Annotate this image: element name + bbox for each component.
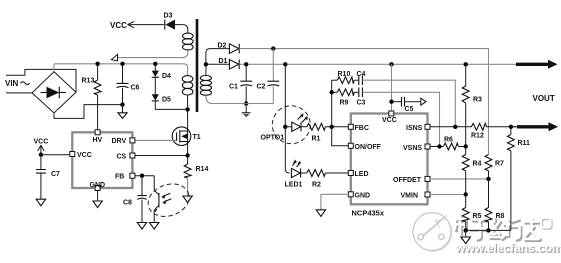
svg-text:CS: CS bbox=[117, 154, 127, 161]
pin GND (U1) bbox=[90, 182, 106, 191]
wire bottom ground bus bbox=[466, 229, 511, 231]
resistor R5 bbox=[462, 195, 481, 231]
resistor R13 bbox=[82, 64, 102, 130]
pin VMIN bbox=[401, 192, 431, 200]
svg-text:R4: R4 bbox=[473, 161, 482, 168]
svg-text:D1: D1 bbox=[219, 58, 228, 65]
pin FBC bbox=[348, 124, 369, 132]
node VCC label (left) bbox=[34, 139, 49, 155]
off-page arrow to VCC (aux winding return) bbox=[111, 50, 187, 61]
svg-text:VOUT: VOUT bbox=[533, 94, 555, 103]
svg-text:D2: D2 bbox=[218, 43, 227, 50]
svg-text:D3: D3 bbox=[164, 13, 173, 20]
svg-text:C8: C8 bbox=[123, 200, 132, 207]
transformer T aux winding bbox=[183, 25, 194, 50]
wire VIN line A (top input) bbox=[6, 69, 76, 92]
svg-text:C1: C1 bbox=[229, 84, 238, 91]
svg-text:OPTO1: OPTO1 bbox=[261, 135, 285, 142]
svg-text:ISNS: ISNS bbox=[406, 125, 423, 132]
svg-text:R1: R1 bbox=[312, 136, 321, 143]
resistor R8 bbox=[485, 179, 504, 231]
watermark chinese text 电子发烧友 bbox=[455, 216, 541, 241]
svg-text:C6: C6 bbox=[131, 85, 140, 92]
svg-text:VSNS: VSNS bbox=[403, 145, 422, 152]
node junction dot VCC/C7 bbox=[39, 153, 43, 157]
node junction dot VMIN/R4/R5 bbox=[464, 192, 468, 196]
wire VCC arrow to D3 bbox=[128, 22, 165, 28]
node junction dot C4 drop on ISNS bbox=[453, 125, 457, 129]
watermark logo disc bbox=[413, 213, 453, 253]
wire VCC to U1 bbox=[41, 154, 70, 156]
svg-text:R5: R5 bbox=[473, 213, 482, 220]
opto-transistor (OPTO1 receiver) bbox=[144, 176, 194, 223]
pin ISNS bbox=[406, 124, 430, 132]
svg-text:R7: R7 bbox=[495, 161, 504, 168]
ground below R5 bbox=[461, 230, 470, 243]
wire DC+ rail from bridge top to transformer primary bbox=[54, 64, 188, 76]
resistor R7 bbox=[485, 155, 504, 179]
node junction dot D4 top bbox=[153, 62, 157, 66]
resistor R3 bbox=[462, 64, 482, 146]
wire VOUT arrow bottom bbox=[511, 122, 558, 131]
wire VOUT+ rail from D1 to arrow bbox=[239, 63, 516, 65]
wire secondary top to D2 row bbox=[206, 49, 229, 65]
node junction dot R8 bottom bbox=[486, 228, 490, 232]
svg-text:R12: R12 bbox=[471, 133, 484, 140]
ground below C8 bbox=[137, 223, 146, 230]
pin VSNS bbox=[403, 144, 430, 152]
pin ON/OFF bbox=[348, 143, 381, 151]
transformer T core bbox=[196, 19, 199, 112]
capacitor C5 bbox=[392, 97, 427, 113]
svg-text:www.elecfans.com: www.elecfans.com bbox=[455, 241, 561, 255]
IC U1 controller box bbox=[72, 132, 132, 188]
diode D4 bbox=[152, 64, 171, 80]
svg-text:DRV: DRV bbox=[112, 138, 127, 145]
svg-text:VCC: VCC bbox=[110, 21, 127, 30]
svg-text:R3: R3 bbox=[473, 97, 482, 104]
svg-text:D4: D4 bbox=[162, 73, 171, 80]
node junction dot R3 top bbox=[464, 62, 468, 66]
ground below C1 bbox=[242, 104, 251, 118]
node junction dot opto column top bbox=[283, 62, 287, 66]
node junction dot C3 drop on VSNS bbox=[437, 144, 441, 148]
transformer T primary winding bbox=[182, 76, 193, 110]
node junction dot primary bottom / T1 drain bbox=[185, 107, 189, 111]
LED LED1 bbox=[285, 160, 303, 189]
svg-text:ON/OFF: ON/OFF bbox=[355, 144, 382, 151]
svg-text:T1: T1 bbox=[193, 134, 201, 141]
node junction dot R9 left bbox=[330, 90, 334, 94]
wire VIN line B (bottom input) bbox=[6, 92, 32, 94]
wire VSNS row bbox=[430, 146, 443, 148]
node junction dot C1 top bbox=[244, 62, 248, 66]
wire opto/LED column bbox=[285, 64, 289, 173]
diode D5 bbox=[152, 94, 171, 103]
ground below C6 bbox=[118, 105, 127, 119]
node junction dot C6 top bbox=[120, 62, 124, 66]
node junction dot VCC column top bbox=[389, 62, 393, 66]
svg-text:NCP435x: NCP435x bbox=[352, 209, 385, 218]
node junction dot C1 bottom bbox=[244, 101, 248, 105]
svg-text:R6: R6 bbox=[444, 137, 453, 144]
svg-text:D5: D5 bbox=[162, 97, 171, 104]
wire D5 to primary bottom bbox=[155, 101, 187, 110]
node junction dot C2 top bbox=[271, 46, 275, 50]
svg-text:R8: R8 bbox=[496, 213, 505, 220]
capacitor C8 bbox=[123, 176, 147, 223]
svg-text:GND: GND bbox=[355, 193, 371, 200]
resistor R2 bbox=[301, 170, 349, 189]
wire D4 to D5 bbox=[154, 77, 156, 94]
svg-text:OFFDET: OFFDET bbox=[393, 177, 422, 184]
IC U2 NCP435x box bbox=[351, 114, 428, 205]
svg-text:R10: R10 bbox=[338, 71, 351, 78]
resistor R1 bbox=[301, 123, 348, 142]
capacitor C2 bbox=[257, 49, 280, 104]
svg-text:C3: C3 bbox=[357, 99, 366, 106]
capacitor C6 bbox=[117, 64, 140, 105]
watermark url text bbox=[455, 241, 561, 256]
svg-text:R14: R14 bbox=[196, 166, 209, 173]
bridge rectifier BR1 diamond bbox=[32, 72, 76, 113]
wire FB row bbox=[135, 175, 154, 177]
resistor R10 bbox=[332, 71, 359, 84]
opto LED (OPTO1) bbox=[261, 106, 311, 144]
wire R10/R9 left column bbox=[331, 80, 333, 127]
transformer T secondary winding bbox=[200, 64, 212, 103]
diode D1 bbox=[219, 58, 240, 69]
diode D2 bbox=[218, 43, 240, 54]
wire OFFDET row bbox=[430, 178, 489, 180]
node junction dot opto LED anode bbox=[283, 125, 287, 129]
pin CS bbox=[117, 153, 135, 161]
node junction dot R11 top bbox=[509, 125, 513, 129]
wire secondary top to D1 bbox=[206, 63, 229, 65]
capacitor C3 bbox=[357, 88, 440, 145]
node junction dot C6 bottom bbox=[120, 102, 124, 106]
node junction dot R5 bottom bbox=[464, 228, 468, 232]
svg-text:R13: R13 bbox=[82, 78, 95, 85]
pin LED bbox=[348, 171, 368, 179]
svg-text:FBC: FBC bbox=[355, 125, 369, 132]
pin DRV bbox=[112, 138, 135, 145]
wire VCC column bbox=[391, 64, 393, 111]
capacitor C1 bbox=[229, 64, 252, 103]
wire ISNS row bbox=[430, 126, 516, 128]
wire VMIN row bbox=[430, 194, 466, 196]
svg-text:C2: C2 bbox=[257, 84, 266, 91]
node junction dot OFFDET/R7/R8 bbox=[486, 177, 490, 181]
svg-text:C5: C5 bbox=[405, 106, 414, 113]
resistor R12 bbox=[471, 123, 486, 139]
ground below opto emitter bbox=[150, 223, 159, 230]
wire CS row bbox=[135, 155, 188, 157]
node junction dot C5 tap bbox=[389, 100, 393, 104]
wire secondary ground rail bbox=[212, 103, 273, 105]
svg-text:C4: C4 bbox=[357, 71, 366, 78]
svg-text:HV: HV bbox=[93, 137, 103, 144]
capacitor C4 bbox=[357, 71, 456, 125]
wire bridge bottom to ground rail bbox=[54, 105, 123, 119]
resistor R4 bbox=[462, 147, 481, 195]
node junction dot FB/C8 bbox=[140, 174, 144, 178]
svg-text:LED: LED bbox=[355, 171, 369, 178]
svg-text:GND: GND bbox=[90, 182, 106, 189]
svg-text:R9: R9 bbox=[340, 99, 349, 106]
node junction dot secondary top bbox=[204, 62, 208, 66]
svg-text:FB: FB bbox=[115, 174, 124, 181]
svg-text:R2: R2 bbox=[312, 182, 321, 189]
node junction dot R6/R3/R4 bbox=[464, 144, 468, 148]
resistor R14 bbox=[184, 156, 208, 197]
wire D2 output rail (to right column) bbox=[239, 49, 488, 155]
resistor R9 bbox=[332, 89, 359, 106]
node junction dot FBC node bbox=[330, 125, 334, 129]
wire FBC node to ON/OFF bbox=[332, 127, 349, 146]
ground below U1 GND bbox=[93, 191, 102, 208]
pin FB bbox=[115, 173, 135, 180]
MOSFET T1 bbox=[135, 109, 201, 155]
node junction dot R13 top bbox=[95, 62, 99, 66]
pin VCC (U2) bbox=[382, 111, 397, 124]
svg-text:VCC: VCC bbox=[34, 139, 49, 146]
ground below R14 bbox=[183, 196, 192, 203]
svg-text:VCC: VCC bbox=[77, 152, 92, 159]
svg-text:VCC: VCC bbox=[382, 117, 397, 124]
svg-text:VMIN: VMIN bbox=[401, 193, 419, 200]
pin HV bbox=[93, 130, 103, 144]
watermark registered seal bbox=[541, 218, 552, 229]
svg-text:LED1: LED1 bbox=[285, 182, 303, 189]
pin GND (U2) bbox=[348, 192, 370, 200]
wire VOUT arrow top bbox=[516, 60, 558, 69]
resistor R6 bbox=[443, 137, 465, 150]
pin OFFDET bbox=[393, 176, 430, 184]
svg-text:C7: C7 bbox=[51, 171, 60, 178]
svg-text:R11: R11 bbox=[518, 140, 531, 147]
node junction dot T1 source / CS bbox=[185, 153, 189, 157]
svg-text:VIN: VIN bbox=[5, 79, 19, 88]
capacitor C7 bbox=[36, 155, 60, 200]
ground below C7 bbox=[36, 199, 45, 206]
wire U2 GND to ground bbox=[316, 194, 348, 216]
resistor R11 bbox=[508, 127, 531, 231]
pin VCC (U1) bbox=[70, 152, 92, 160]
diode D3 bbox=[164, 13, 183, 30]
